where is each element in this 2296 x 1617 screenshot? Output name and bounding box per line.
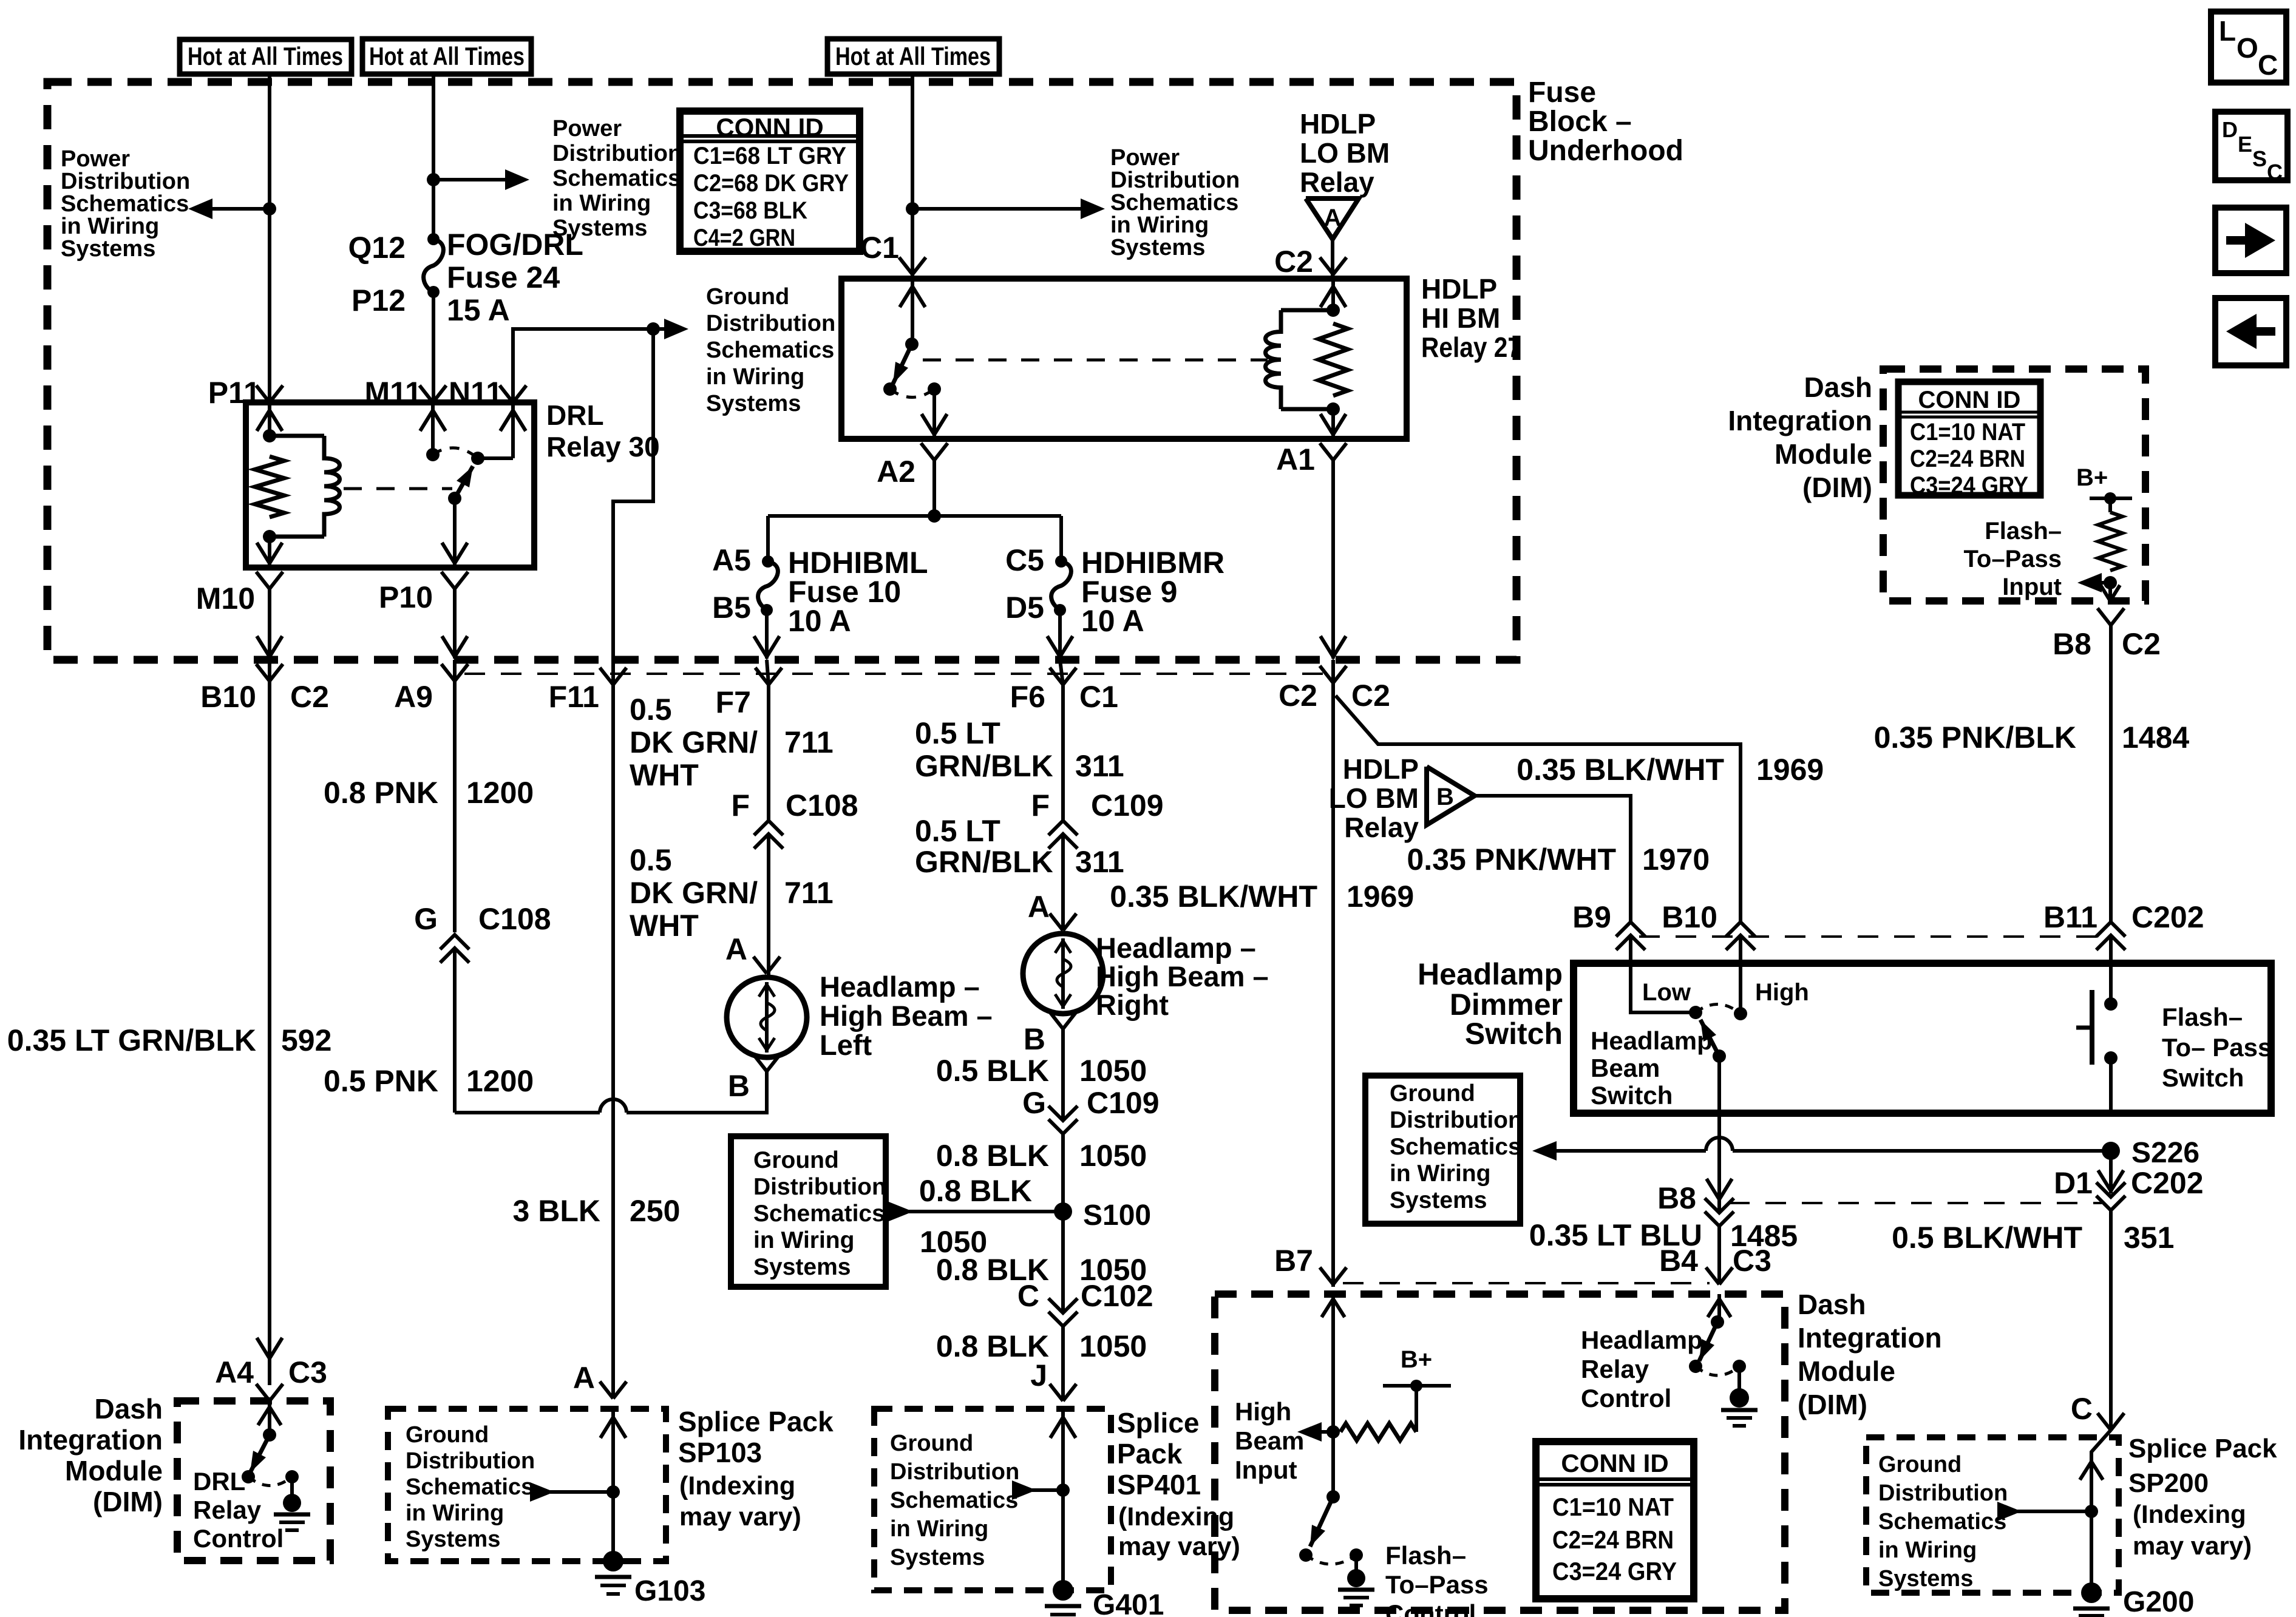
svg-text:B10: B10 xyxy=(1662,900,1717,934)
connector chevron P11 xyxy=(256,385,270,402)
svg-text:Input: Input xyxy=(2002,574,2062,600)
svg-text:P10: P10 xyxy=(379,580,433,614)
conn id table (DIM top) xyxy=(1898,382,2040,495)
flow arrow into relay at M11 xyxy=(431,405,435,455)
svg-text:Dash: Dash xyxy=(1804,371,1872,403)
svg-text:0.35 BLK/WHT: 0.35 BLK/WHT xyxy=(1517,753,1724,787)
svg-text:C108: C108 xyxy=(478,902,551,936)
svg-text:1050: 1050 xyxy=(1079,1054,1147,1088)
wire S226 to ground distribution arrow xyxy=(1532,1141,1557,1161)
svg-text:15 A: 15 A xyxy=(447,293,510,327)
connector chevron A4/C3 xyxy=(256,1384,270,1401)
svg-text:1050: 1050 xyxy=(1079,1139,1147,1173)
svg-text:Power: Power xyxy=(1110,145,1180,171)
connector chevron B7 xyxy=(1320,1267,1333,1284)
svg-text:B8: B8 xyxy=(2053,627,2091,661)
svg-text:1200: 1200 xyxy=(466,1064,534,1098)
relay K27 HDLP HI BM Relay 27 box xyxy=(841,279,1407,439)
wire 1484 0.35 PNK/BLK to B11 xyxy=(2109,625,2113,922)
SP200 input wire with jog xyxy=(2091,1430,2111,1511)
svg-text:Block –: Block – xyxy=(1528,106,1632,138)
svg-text:C3: C3 xyxy=(1733,1244,1771,1278)
wire N11 branch down to F11 xyxy=(613,329,653,660)
svg-text:A: A xyxy=(573,1361,595,1395)
svg-text:C5: C5 xyxy=(1005,543,1044,577)
wire from DRL relay pin N11 to ground distribution xyxy=(513,329,680,402)
connector chevron B8/C2 (DIM top) xyxy=(2097,608,2111,625)
svg-text:C2=24 BRN: C2=24 BRN xyxy=(1910,446,2025,472)
svg-text:Control: Control xyxy=(1385,1599,1476,1617)
svg-text:Systems: Systems xyxy=(1878,1566,1973,1592)
lamp headlamp high beam left xyxy=(727,977,807,1057)
junction dot SP401 xyxy=(1056,1483,1070,1497)
svg-text:Fuse 24: Fuse 24 xyxy=(447,260,560,294)
svg-text:B5: B5 xyxy=(712,591,751,625)
relay K30 coil xyxy=(263,429,276,442)
svg-text:Headlamp –: Headlamp – xyxy=(820,971,980,1003)
svg-text:C1: C1 xyxy=(1079,680,1118,714)
connector chevron A right lamp xyxy=(1050,914,1063,931)
svg-text:GRN/BLK: GRN/BLK xyxy=(915,845,1053,879)
wire 1050 0.8 BLK to S100 xyxy=(1061,1134,1065,1313)
connector chevron C1 (relay 27) xyxy=(899,257,912,274)
wire 311 below C109 to lamp xyxy=(1061,834,1065,929)
flash-to-pass control switch xyxy=(1331,1432,1335,1497)
svg-text:Power: Power xyxy=(552,116,622,141)
svg-text:Distribution: Distribution xyxy=(406,1448,535,1474)
wire P10 down to fuse block edge xyxy=(453,589,457,659)
svg-text:Relay: Relay xyxy=(1300,166,1374,198)
wire fuse B5 to F7 edge xyxy=(765,610,769,659)
svg-text:Beam: Beam xyxy=(1591,1054,1660,1082)
relay K30 switch N11 contact xyxy=(478,456,513,460)
junction dot on P11 feed xyxy=(263,202,276,215)
svg-text:G: G xyxy=(414,902,438,936)
ground distribution box (S100) solid xyxy=(731,1136,886,1287)
flow arrow into relay 27 at C2 xyxy=(1331,279,1335,310)
svg-text:Distribution: Distribution xyxy=(1390,1107,1523,1133)
splice pack SP103 dashed box xyxy=(388,1409,666,1561)
svg-text:in Wiring: in Wiring xyxy=(406,1500,504,1526)
svg-text:B4: B4 xyxy=(1659,1244,1698,1278)
svg-text:Headlamp: Headlamp xyxy=(1581,1326,1703,1354)
svg-text:B10: B10 xyxy=(200,680,256,714)
wire 1969 branch to headlamp dimmer switch High xyxy=(1336,696,1741,922)
svg-text:S: S xyxy=(2252,146,2267,171)
fuse FOG/DRL Fuse 24 15 A xyxy=(427,233,440,245)
svg-text:Distribution: Distribution xyxy=(1878,1480,2008,1506)
svg-text:Relay 30: Relay 30 xyxy=(546,431,660,463)
inline connector D1 xyxy=(2096,1182,2125,1197)
svg-text:C2: C2 xyxy=(290,680,329,714)
conn id table (fuse block) xyxy=(680,111,860,251)
svg-text:FOG/DRL: FOG/DRL xyxy=(447,228,583,262)
S100 feed arrow line xyxy=(889,1202,913,1221)
wire S226 down to D1 xyxy=(2109,1151,2113,1193)
connector chevron C2 (relay 27) xyxy=(1320,257,1333,274)
svg-text:0.5: 0.5 xyxy=(630,843,672,877)
svg-text:1969: 1969 xyxy=(1756,753,1824,787)
dimmer Low/High contacts xyxy=(1689,1006,1702,1019)
svg-text:C202: C202 xyxy=(2131,900,2204,934)
svg-text:C2=68 DK GRY: C2=68 DK GRY xyxy=(693,170,849,197)
svg-text:Dash: Dash xyxy=(95,1393,163,1425)
svg-text:in Wiring: in Wiring xyxy=(890,1516,988,1542)
svg-text:711: 711 xyxy=(784,725,834,759)
relay K27 switch arm xyxy=(893,344,912,384)
svg-text:Module: Module xyxy=(1798,1355,1895,1387)
svg-text:WHT: WHT xyxy=(630,909,699,943)
svg-text:High: High xyxy=(1235,1397,1291,1426)
svg-text:0.5 BLK: 0.5 BLK xyxy=(936,1054,1049,1088)
wire SP103 to ground G103 xyxy=(611,1492,615,1561)
power label box 'Hot at All Times' #2 xyxy=(362,39,531,74)
svg-text:Integration: Integration xyxy=(1798,1322,1942,1354)
connector chevron B right lamp xyxy=(1050,1012,1063,1029)
splice pack SP401 dashed box xyxy=(874,1409,1111,1590)
SP401 input arrow xyxy=(1061,1409,1065,1490)
svg-text:A2: A2 xyxy=(877,455,915,489)
connector chevron F7 xyxy=(755,668,769,685)
conn id table (DIM bottom) xyxy=(1536,1442,1694,1599)
svg-text:C3=68 BLK: C3=68 BLK xyxy=(693,197,807,224)
relay triangle B xyxy=(1427,767,1475,825)
svg-text:1050: 1050 xyxy=(1079,1329,1147,1363)
svg-text:DK GRN/: DK GRN/ xyxy=(630,725,758,759)
svg-text:D1: D1 xyxy=(2054,1166,2093,1200)
svg-text:may vary): may vary) xyxy=(2133,1531,2252,1560)
svg-text:HDLP: HDLP xyxy=(1343,753,1419,785)
flash-to-pass input branch arrow xyxy=(2086,581,2110,585)
svg-text:Hot at All Times: Hot at All Times xyxy=(835,42,991,70)
wire from Hot-at-All-Times #1 to DRL relay pin P11 xyxy=(268,74,271,402)
svg-text:B+: B+ xyxy=(1401,1346,1432,1373)
connector boundary dashed line C2/C1/C108 (thin) xyxy=(464,673,1330,675)
svg-text:C3: C3 xyxy=(288,1355,327,1389)
ground G103 xyxy=(603,1551,623,1571)
svg-text:in Wiring: in Wiring xyxy=(552,191,651,216)
high beam fuse feed rail xyxy=(768,514,1061,518)
headlamp relay control ground xyxy=(1737,1366,1741,1398)
svg-text:592: 592 xyxy=(281,1023,331,1057)
svg-text:in Wiring: in Wiring xyxy=(61,214,159,239)
headlamp relay control switch xyxy=(1717,1294,1721,1322)
svg-text:Ground: Ground xyxy=(706,284,789,310)
svg-text:F7: F7 xyxy=(716,685,751,719)
svg-text:Systems: Systems xyxy=(1390,1187,1487,1213)
DRL relay control contacts and arc xyxy=(242,1470,255,1483)
svg-text:M10: M10 xyxy=(196,581,255,615)
svg-text:A1: A1 xyxy=(1276,442,1315,476)
svg-text:LO BM: LO BM xyxy=(1329,782,1419,814)
wire from Hot-at-All-Times #2 to fuse FOG/DRL xyxy=(432,74,435,239)
beam switch output wire through box xyxy=(1717,1056,1721,1131)
svg-text:(Indexing: (Indexing xyxy=(679,1471,795,1500)
svg-text:Distribution: Distribution xyxy=(1110,168,1240,193)
flash-to-pass input resistor xyxy=(2108,498,2112,512)
connector chevron B4 xyxy=(1706,1267,1719,1284)
svg-text:F: F xyxy=(731,788,750,822)
DIM DRL relay control input arrow xyxy=(268,1401,271,1435)
legend box arrow left xyxy=(2215,298,2286,365)
svg-text:0.8 BLK: 0.8 BLK xyxy=(919,1174,1032,1208)
high beam input branch arrow xyxy=(1306,1430,1333,1434)
svg-text:C2: C2 xyxy=(1351,679,1390,713)
wire 1050 0.8 BLK to SP401 xyxy=(1061,1326,1065,1401)
wire rail to fuse HDHIBML xyxy=(766,516,770,561)
svg-text:0.5 PNK: 0.5 PNK xyxy=(324,1064,438,1098)
svg-text:3 BLK: 3 BLK xyxy=(513,1194,600,1228)
svg-text:1969: 1969 xyxy=(1347,880,1414,914)
fuse HDHIBMR Fuse 9 10A xyxy=(1055,555,1067,568)
svg-text:Splice Pack: Splice Pack xyxy=(2128,1434,2277,1463)
svg-text:C202: C202 xyxy=(2131,1166,2204,1200)
svg-text:DRL: DRL xyxy=(193,1467,245,1496)
svg-text:Schematics: Schematics xyxy=(1390,1134,1521,1160)
splice S226 junction dot xyxy=(2102,1142,2120,1160)
wire arrow to Power Distribution Schematics (right) xyxy=(912,207,1096,211)
svg-text:B+: B+ xyxy=(2076,464,2108,491)
svg-text:Q12: Q12 xyxy=(348,231,406,265)
svg-text:E: E xyxy=(2238,132,2252,157)
power label box 'Hot at All Times' #1 xyxy=(180,39,352,74)
svg-text:C1=10 NAT: C1=10 NAT xyxy=(1910,419,2025,446)
svg-text:Hot at All Times: Hot at All Times xyxy=(369,42,525,70)
wire B8 output of DIM xyxy=(2108,583,2112,602)
connector chevron F6 xyxy=(1050,668,1063,685)
svg-text:B11: B11 xyxy=(2043,900,2097,934)
svg-text:1200: 1200 xyxy=(466,776,534,810)
svg-text:(DIM): (DIM) xyxy=(93,1486,163,1517)
SP401 branch arrow to wire xyxy=(1012,1480,1036,1500)
svg-text:C108: C108 xyxy=(786,788,858,822)
flow arrow into relay 27 at C1 xyxy=(911,279,914,344)
connector chevron B left lamp xyxy=(753,1054,767,1071)
connector chevron M11 xyxy=(419,385,433,402)
svg-text:To–Pass: To–Pass xyxy=(1385,1570,1489,1599)
legend box LOC xyxy=(2211,12,2286,83)
svg-text:C: C xyxy=(2267,160,2283,185)
relay K27 actuating dashed link xyxy=(923,359,1268,362)
junction dot on fuse feed xyxy=(427,173,440,186)
connector chevron C (SP200) xyxy=(2097,1413,2111,1430)
svg-text:Ground: Ground xyxy=(406,1422,489,1448)
wire 351 0.5 BLK/WHT to SP200 xyxy=(2109,1210,2113,1430)
svg-text:P12: P12 xyxy=(352,283,406,317)
svg-text:Distribution: Distribution xyxy=(61,169,190,194)
svg-text:C2: C2 xyxy=(1279,679,1317,713)
svg-text:Systems: Systems xyxy=(706,391,801,416)
svg-text:Schematics: Schematics xyxy=(406,1474,534,1500)
ground G200 xyxy=(2081,1582,2102,1603)
svg-text:B: B xyxy=(728,1069,750,1103)
svg-text:0.5 LT: 0.5 LT xyxy=(915,716,1000,750)
wire 1050 0.5 BLK from right lamp xyxy=(1061,1029,1065,1120)
svg-text:Ground: Ground xyxy=(1390,1080,1475,1107)
svg-text:Ground: Ground xyxy=(753,1147,839,1173)
svg-text:N11: N11 xyxy=(449,376,503,410)
svg-text:C109: C109 xyxy=(1091,788,1164,822)
svg-text:Fuse: Fuse xyxy=(1528,76,1596,109)
connector chevron A2 xyxy=(921,443,934,460)
svg-text:Low: Low xyxy=(1642,979,1691,1006)
dash integration module (DIM) dashed box bottom-right xyxy=(1215,1294,1785,1610)
svg-text:0.35 BLK/WHT: 0.35 BLK/WHT xyxy=(1110,880,1317,914)
svg-text:LO BM: LO BM xyxy=(1300,137,1390,169)
svg-text:Pack: Pack xyxy=(1117,1438,1183,1470)
junction dot SP200 xyxy=(2085,1505,2098,1518)
connector chevron F11 xyxy=(600,668,613,685)
svg-text:HI BM: HI BM xyxy=(1421,302,1500,334)
legend box DESC xyxy=(2215,112,2288,180)
wire A2 to high-beam fuse rail xyxy=(932,460,936,516)
svg-text:C3=24 GRY: C3=24 GRY xyxy=(1552,1557,1677,1585)
svg-text:1970: 1970 xyxy=(1642,842,1710,876)
connector boundary dashed line C3 (thin) xyxy=(1729,1202,2102,1204)
svg-text:Integration: Integration xyxy=(18,1424,163,1456)
svg-text:G401: G401 xyxy=(1093,1589,1164,1617)
svg-text:Module: Module xyxy=(65,1455,163,1486)
connector boundary dashed line (B7-B4 thin) xyxy=(1343,1282,1710,1284)
svg-text:CONN ID: CONN ID xyxy=(716,113,823,141)
power label box 'Hot at All Times' #3 xyxy=(827,39,999,74)
svg-text:D: D xyxy=(2222,117,2238,142)
svg-text:G200: G200 xyxy=(2123,1586,2194,1617)
svg-text:B9: B9 xyxy=(1572,900,1611,934)
svg-text:C2: C2 xyxy=(1274,245,1313,279)
svg-text:may vary): may vary) xyxy=(1118,1532,1240,1561)
svg-text:351: 351 xyxy=(2124,1221,2174,1255)
flash-to-pass switch upper contact xyxy=(2109,935,2113,963)
svg-text:Flash–: Flash– xyxy=(1385,1541,1466,1570)
svg-text:C1=10 NAT: C1=10 NAT xyxy=(1552,1493,1674,1521)
connector chevron B10/C2 xyxy=(256,664,270,681)
relay K30 switch common M11 contact dot xyxy=(426,448,440,461)
svg-text:C: C xyxy=(2071,1392,2093,1426)
relay K27 switch pivot xyxy=(905,337,919,351)
wire arrow to Power Distribution Schematics (left) xyxy=(197,207,270,211)
junction dot high beam input xyxy=(1326,1425,1340,1439)
svg-text:in Wiring: in Wiring xyxy=(1110,212,1209,238)
wire B8 from beam switch down xyxy=(1717,1131,1721,1213)
dimmer High contact feed xyxy=(1739,935,1742,1012)
svg-text:G: G xyxy=(1022,1086,1046,1120)
junction dot A2-rail xyxy=(928,509,941,523)
svg-text:Schematics: Schematics xyxy=(1110,190,1238,215)
svg-text:Relay: Relay xyxy=(193,1496,262,1524)
relay K27 resistor xyxy=(1319,324,1348,396)
svg-text:High: High xyxy=(1755,979,1809,1006)
wire 1970 0.35 PNK/WHT from triangle B to dimmer Low xyxy=(1475,796,1631,922)
wire SP401 to ground G401 xyxy=(1061,1490,1065,1590)
connector chevron C2 C2 (to DIM) xyxy=(1320,666,1333,683)
svg-text:HDLP: HDLP xyxy=(1421,273,1497,305)
inline connector B8 (C3 boundary) xyxy=(1705,1198,1734,1213)
svg-text:250: 250 xyxy=(630,1194,680,1228)
ground G401 xyxy=(1053,1580,1073,1601)
svg-text:C: C xyxy=(1017,1279,1039,1313)
svg-text:DRL: DRL xyxy=(546,399,604,431)
svg-text:GRN/BLK: GRN/BLK xyxy=(915,749,1053,783)
svg-text:C102: C102 xyxy=(1081,1279,1153,1313)
DRL relay control switch arm xyxy=(250,1435,270,1473)
svg-text:Schematics: Schematics xyxy=(753,1201,885,1227)
svg-text:S100: S100 xyxy=(1083,1199,1151,1232)
fuse HDHIBML Fuse 10 10A xyxy=(762,555,774,568)
svg-text:Left: Left xyxy=(820,1029,872,1061)
wire 1969 0.35 BLK/WHT from C2 to DIM B7 xyxy=(1331,683,1335,1287)
fuse block - underhood dashed boundary box xyxy=(47,82,1517,660)
relay K30 coil output to M10 xyxy=(268,537,271,568)
flash-to-pass switch plate xyxy=(2090,990,2094,1065)
svg-text:0.5: 0.5 xyxy=(630,693,672,727)
svg-text:O: O xyxy=(2237,32,2258,64)
SP200 branch arrow to wire xyxy=(1997,1502,2022,1521)
svg-text:M11: M11 xyxy=(364,376,422,410)
svg-text:311: 311 xyxy=(1075,749,1124,783)
svg-text:High Beam –: High Beam – xyxy=(820,1000,993,1032)
junction dot flash-to-pass input xyxy=(2104,576,2117,589)
wire 592 LT GRN/BLK from B10 to DIM A4 xyxy=(268,681,271,1385)
svg-text:Switch: Switch xyxy=(1465,1017,1563,1051)
svg-text:Right: Right xyxy=(1096,989,1169,1021)
relay K30 switch output to P10 xyxy=(453,498,457,568)
svg-text:B: B xyxy=(1024,1022,1045,1056)
svg-text:C2=24 BRN: C2=24 BRN xyxy=(1552,1525,1674,1554)
svg-text:S226: S226 xyxy=(2131,1137,2199,1169)
wire 711 below C108 to lamp xyxy=(767,834,770,975)
wire 311 LT GRN/BLK from F6 xyxy=(1061,685,1065,821)
relay K27 switch contacts xyxy=(883,382,897,396)
svg-text:may vary): may vary) xyxy=(679,1502,801,1531)
flow arrow into relay at P11 xyxy=(268,405,271,436)
relay K30 switch throw arc xyxy=(433,448,478,458)
wire fuse D5 to F6 edge xyxy=(1058,610,1062,659)
connector chevron A (SP103) xyxy=(600,1381,613,1398)
svg-text:0.5 BLK/WHT: 0.5 BLK/WHT xyxy=(1892,1221,2082,1255)
relay K30 resistor xyxy=(255,456,284,517)
svg-text:Distribution: Distribution xyxy=(706,311,835,336)
flow arrow into relay at N11 xyxy=(511,405,515,458)
wire 711 DK GRN/WHT from F7 xyxy=(767,685,770,821)
svg-text:Schematics: Schematics xyxy=(552,166,681,191)
svg-text:C4=2 GRN: C4=2 GRN xyxy=(693,225,795,251)
connector chevron A left lamp xyxy=(753,957,767,974)
svg-text:F11: F11 xyxy=(549,680,599,714)
splice pack SP200 dashed box xyxy=(1866,1437,2119,1593)
svg-text:C1: C1 xyxy=(860,231,899,265)
svg-text:Schematics: Schematics xyxy=(706,337,834,363)
svg-text:CONN ID: CONN ID xyxy=(1561,1449,1668,1477)
svg-text:Headlamp: Headlamp xyxy=(1591,1026,1713,1055)
svg-text:J: J xyxy=(1030,1358,1047,1392)
lamp headlamp high beam right xyxy=(1023,934,1103,1014)
svg-text:To– Pass: To– Pass xyxy=(2162,1033,2272,1062)
wire 1200 0.8 PNK from A9 xyxy=(453,681,457,932)
svg-text:Splice Pack: Splice Pack xyxy=(678,1406,834,1437)
svg-text:0.35 PNK/WHT: 0.35 PNK/WHT xyxy=(1407,842,1616,876)
svg-text:DK GRN/: DK GRN/ xyxy=(630,876,758,910)
svg-text:F: F xyxy=(1031,788,1050,822)
svg-text:Dash: Dash xyxy=(1798,1289,1866,1320)
svg-text:in Wiring: in Wiring xyxy=(1878,1537,1977,1563)
wire M10 down to fuse block edge xyxy=(268,589,271,659)
SP103 input arrow xyxy=(611,1409,615,1492)
wire rail to fuse HDHIBMR xyxy=(1059,516,1063,561)
svg-text:C109: C109 xyxy=(1087,1086,1160,1120)
svg-text:0.5 LT: 0.5 LT xyxy=(915,814,1000,848)
svg-text:SP200: SP200 xyxy=(2128,1468,2209,1498)
